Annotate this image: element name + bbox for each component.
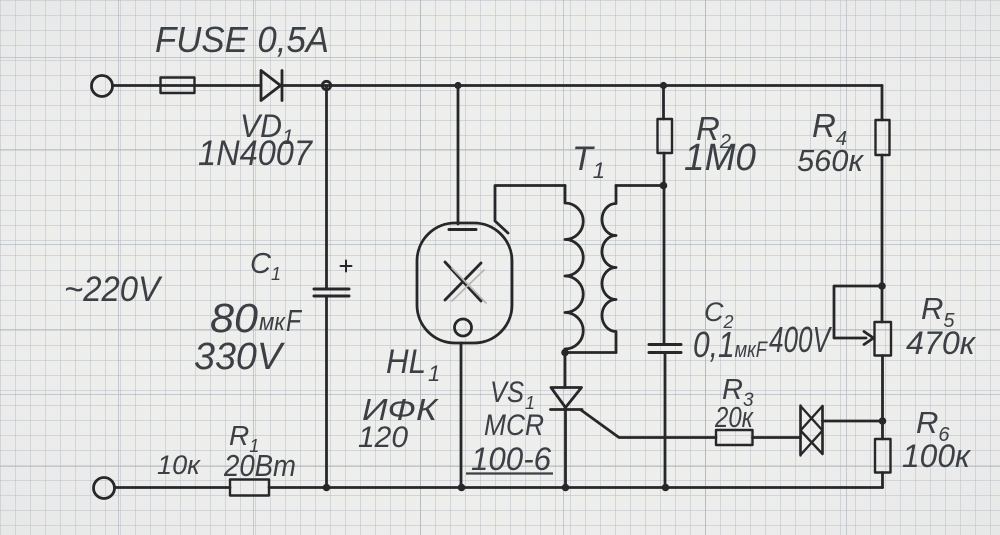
resistor R3 xyxy=(716,430,753,445)
junction node VS1 bottom xyxy=(562,484,570,492)
lamp HL1 electrode bar xyxy=(449,228,476,231)
svg-text:F: F xyxy=(286,303,303,338)
wire T1 bottom link xyxy=(565,351,616,354)
junction node lamp top xyxy=(454,82,461,89)
bottom rail right segment xyxy=(269,486,883,489)
svg-text:10к: 10к xyxy=(157,450,201,480)
wire top rail left segment xyxy=(113,84,262,87)
svg-text:20к: 20к xyxy=(714,402,754,434)
junction node C1 bottom xyxy=(323,484,331,492)
resistor R6 xyxy=(875,439,891,473)
resistor R4 xyxy=(876,120,890,155)
svg-text:FUSE 0,5A: FUSE 0,5A xyxy=(155,19,329,60)
lamp HL1 cross xyxy=(445,262,481,301)
junction node R5 wiper top xyxy=(878,282,886,290)
wire R4 top xyxy=(881,86,884,121)
junction node lamp bottom xyxy=(458,484,466,492)
lamp HL1 trigger dot xyxy=(455,319,472,336)
svg-text:HL: HL xyxy=(386,343,426,381)
svg-text:120: 120 xyxy=(358,421,408,454)
junction node T1 secondary bottom xyxy=(561,349,569,357)
svg-text:560к: 560к xyxy=(797,143,864,178)
svg-text:1: 1 xyxy=(428,361,440,386)
wire C2 bottom xyxy=(664,353,667,488)
wire T1 trigger electrode to lamp xyxy=(495,186,565,234)
wire VS1 gate xyxy=(581,410,716,438)
bottom rail left segment xyxy=(115,486,230,489)
svg-text:мк: мк xyxy=(259,309,287,336)
svg-text:470к: 470к xyxy=(906,325,977,361)
wire C1 branch lower xyxy=(325,296,328,488)
wire R6 bottom xyxy=(881,473,884,488)
junction node T1 primary top xyxy=(660,182,668,190)
svg-text:100к: 100к xyxy=(902,438,972,474)
potentiometer R5 wiper xyxy=(834,286,882,345)
wire R3 to diac xyxy=(753,436,801,439)
svg-text:400V: 400V xyxy=(769,319,832,360)
resistor R1 xyxy=(230,480,269,496)
wire R5 to R6 xyxy=(881,356,884,440)
wire R4 to R5 xyxy=(881,155,884,322)
wire top rail xyxy=(281,84,883,87)
diac VD2 triangles xyxy=(801,406,823,455)
svg-text:100-6: 100-6 xyxy=(471,441,551,477)
svg-text:330V: 330V xyxy=(194,336,286,378)
wire diac to divider node xyxy=(823,420,883,423)
resistor R2 xyxy=(658,119,673,153)
svg-text:1M0: 1M0 xyxy=(684,137,756,179)
svg-text:80: 80 xyxy=(210,295,258,341)
junction node C1 top xyxy=(322,81,330,89)
polarity plus of C1 xyxy=(341,261,352,272)
wire lamp cathode xyxy=(460,343,463,488)
capacitor C2 xyxy=(649,345,681,353)
svg-text:MCR: MCR xyxy=(484,409,544,442)
terminal X1 top-left xyxy=(92,76,113,97)
svg-text:VS: VS xyxy=(490,376,524,409)
svg-text:~220V: ~220V xyxy=(64,270,163,309)
fuse FU1 xyxy=(161,78,195,94)
wire VS1 anode xyxy=(564,353,567,388)
thyristor VS1 xyxy=(551,388,583,410)
svg-text:20Вт: 20Вт xyxy=(223,448,296,483)
wire R2 to C2 branch xyxy=(663,153,666,344)
wire VS1 cathode xyxy=(564,410,567,488)
transformer T1 primary right coil xyxy=(602,186,616,353)
lamp HL1 body xyxy=(417,223,512,343)
svg-text:1N4007: 1N4007 xyxy=(198,134,313,173)
wire C1 branch upper xyxy=(325,86,328,289)
wire R2 top xyxy=(662,86,665,120)
terminal X2 bottom-left xyxy=(94,478,115,499)
wire lamp anode xyxy=(457,86,460,225)
junction node R2 top xyxy=(660,82,667,89)
capacitor C1 xyxy=(314,289,349,296)
junction node divider xyxy=(879,417,887,425)
lamp HL1 cross ghost stroke xyxy=(452,268,486,303)
potentiometer R5 body xyxy=(875,322,892,356)
junction node C2 bottom xyxy=(662,484,670,492)
transformer T1 secondary left coil xyxy=(565,186,583,353)
diac VD2 bars xyxy=(801,406,823,456)
wire T1 primary top xyxy=(616,184,664,187)
diode VD1 xyxy=(261,71,282,101)
underline of 100-6 xyxy=(466,472,553,474)
